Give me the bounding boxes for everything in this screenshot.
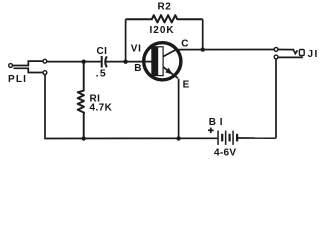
label E	[183, 79, 190, 90]
wire: collector line to J1	[176, 49, 274, 51]
battery B1 plates	[217, 131, 238, 145]
svg-text:B I: B I	[209, 117, 223, 128]
wire: C1 to base of V1	[106, 61, 153, 63]
label V1	[131, 44, 142, 55]
plug PL1 sleeve contact circle	[43, 71, 47, 75]
svg-text:CI: CI	[97, 46, 108, 57]
jack J1 sleeve contact line	[278, 56, 303, 58]
label B	[134, 63, 141, 74]
svg-text:C: C	[181, 38, 188, 49]
wire: J1 sleeve down right side	[275, 59, 277, 139]
label R1	[90, 93, 101, 104]
svg-text:I20K: I20K	[150, 25, 175, 36]
svg-text:.5: .5	[96, 68, 107, 80]
label 4-6V	[214, 147, 236, 158]
jack J1 sleeve terminal circle	[274, 55, 278, 59]
label 120K	[150, 25, 175, 36]
svg-text:4-6V: 4-6V	[214, 147, 236, 158]
junction node: emitter bottom	[176, 136, 180, 140]
wire: battery right to right rail	[238, 137, 276, 139]
svg-text:JI: JI	[308, 49, 319, 60]
svg-text:R2: R2	[158, 1, 172, 12]
wire: emitter vertical	[178, 79, 180, 139]
label 4.7K	[90, 102, 113, 113]
label .5	[96, 68, 107, 80]
transistor V1 circle	[144, 43, 181, 80]
svg-text:PLI: PLI	[8, 74, 27, 85]
jack J1 tip spring contact	[278, 50, 297, 54]
transistor V1 emitter stroke with arrow	[163, 67, 178, 78]
plug PL1 tip prong	[13, 61, 43, 65]
resistor R2	[126, 15, 203, 22]
jack J1 body	[299, 50, 304, 56]
plug PL1 tip terminal	[9, 64, 13, 68]
resistor R1	[78, 63, 84, 139]
transistor V1 base plate	[152, 47, 163, 76]
junction node: R1 bottom	[82, 136, 86, 140]
capacitor C1	[101, 56, 107, 68]
svg-text:E: E	[183, 79, 190, 90]
junction node: R2 left bottom	[123, 60, 127, 64]
label PL1	[8, 74, 27, 85]
svg-text:B: B	[134, 63, 141, 74]
label C1	[97, 46, 108, 57]
transistor V1 collector stroke	[163, 49, 178, 57]
plug PL1 tip contact circle	[43, 59, 47, 63]
label C	[181, 38, 188, 49]
svg-text:4.7K: 4.7K	[90, 102, 113, 113]
plug PL1 sleeve prong	[14, 68, 44, 72]
label B1	[209, 117, 223, 128]
battery plus sign	[208, 128, 214, 134]
junction node: R1 top	[82, 60, 86, 64]
svg-text:VI: VI	[131, 44, 142, 55]
wire: PL1 tip to C1	[47, 61, 101, 63]
junction node: R2 right on collector line	[201, 47, 205, 51]
wire: R2 left vertical	[125, 19, 127, 61]
label R2	[158, 1, 172, 12]
wire: R2 right vertical	[202, 19, 204, 49]
jack J1 tip terminal circle	[274, 48, 278, 52]
wire: bottom rail left	[45, 74, 217, 138]
label J1	[308, 49, 319, 60]
